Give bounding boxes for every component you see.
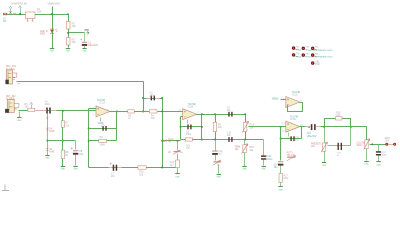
junction 162.2,140.8: [161, 140, 163, 142]
junction 116.9,111.4: [116, 110, 118, 112]
wire buffer in stub: [281, 99, 286, 101]
wire trim stem x177.5: [177, 141, 179, 151]
wire C12 to gnd: [263, 160, 265, 166]
pad TP4: [292, 53, 295, 56]
svg-text:GND: GND: [66, 51, 71, 53]
wire fb stub x280.6: [280, 127, 282, 139]
switch S1 body: [26, 12, 36, 19]
resistor R7: [61, 121, 64, 127]
wire fb rail y138.7: [281, 138, 302, 140]
svg-text:GND: GND: [175, 176, 180, 178]
wire trimmer4 stem: [324, 127, 326, 143]
op-amp IC1A: [96, 106, 110, 117]
svg-text:PAD: PAD: [315, 63, 320, 66]
wire VIN rail y14: [4, 14, 69, 16]
svg-text:100p: 100p: [186, 134, 192, 136]
wire buffer feedback loop: [288, 103, 303, 112]
junction 201.9,126.9: [201, 126, 203, 128]
junction 245.2,139.5: [244, 139, 246, 141]
ground GND8: [175, 173, 179, 175]
diode mark top x47: [46, 117, 48, 119]
resistor R3: [128, 110, 134, 113]
junction 180.5,126.9: [180, 126, 182, 128]
wire 47-63 y140.6: [48, 140, 76, 142]
svg-text:GND: GND: [217, 177, 222, 179]
jack J2 sleeve: [5, 109, 9, 113]
pad TP5: [302, 53, 305, 56]
resistor R2: [66, 37, 70, 45]
jack J2 switch box: [14, 104, 19, 108]
trimmer R14: [244, 122, 247, 131]
junction mic2/x62.9: [62, 110, 64, 112]
svg-text:GND: GND: [376, 164, 381, 166]
pad TP2: [302, 47, 305, 50]
resistor R8: [61, 150, 64, 159]
wire coupling y98: [144, 98, 163, 100]
wire R16 to gnd: [218, 165, 220, 174]
diode D4: [46, 148, 48, 150]
resistor R18: [336, 117, 343, 120]
junction 88.7,128.3: [88, 127, 90, 129]
wire R3-R4: [135, 111, 150, 113]
supply arrow VBB: [86, 31, 89, 34]
wire VBB cap stem: [84, 33, 86, 42]
svg-text:1%: 1%: [186, 148, 189, 150]
wire mic1 signal: [17, 81, 144, 83]
svg-text:RED: RED: [40, 33, 45, 36]
capacitor C11 polarized: [212, 151, 218, 152]
svg-text:GND: GND: [50, 51, 55, 53]
ground GND14: [364, 161, 368, 163]
ground GND2: [66, 48, 70, 50]
wire noninv stub op2: [181, 116, 183, 118]
capacitor C10 in lower rail: [228, 137, 229, 142]
capacitor C6: [102, 126, 103, 131]
wire feedback res branch y140.8: [89, 140, 117, 142]
svg-text:TL072D: TL072D: [188, 104, 197, 106]
wire x263.7 stem: [263, 140, 265, 156]
wire R18 bypass loop: [325, 119, 351, 127]
wire output IC1B: [197, 114, 246, 116]
wire mic1 drop x143: [143, 82, 145, 112]
diode D2: [13, 13, 16, 15]
svg-text:DC: DC: [3, 20, 7, 23]
wire C14 to R17: [280, 166, 282, 174]
ground GND13: [322, 162, 326, 164]
wire fb cap branch y126.9: [181, 126, 202, 128]
svg-text:4k7: 4k7: [170, 164, 175, 167]
capacitor C17: [376, 151, 381, 153]
svg-text:TL074D: TL074D: [290, 116, 299, 118]
wire R12 to gnd: [177, 168, 179, 174]
junction 62.9,140.6: [62, 140, 64, 142]
ground GND4: [17, 117, 21, 119]
svg-text:8ohm: 8ohm: [357, 145, 363, 147]
op-amp IC1A power stub: [100, 118, 102, 122]
svg-text:10u: 10u: [79, 153, 84, 156]
pad TP7: [311, 61, 314, 64]
resistor R5: [213, 122, 216, 131]
svg-text:GND: GND: [278, 189, 283, 191]
wire output IC1D: [300, 126, 310, 128]
wire stage bus y112 segment: [117, 111, 128, 113]
wire trimmer2 stem below rail: [244, 140, 246, 145]
svg-text:GND: GND: [261, 169, 266, 171]
svg-text:IC1C: IC1C: [292, 94, 298, 97]
wire trimmer5 to gnd: [366, 149, 368, 161]
supply arrow VBB mic bias: [30, 102, 33, 104]
svg-text:100u/16V: 100u/16V: [307, 136, 317, 138]
wire x215 between rails: [215, 115, 217, 140]
svg-text:GND: GND: [322, 165, 327, 167]
svg-text:100k: 100k: [100, 144, 106, 147]
svg-text:100n: 100n: [150, 94, 156, 97]
pad TP3: [311, 47, 314, 50]
svg-text:100n: 100n: [267, 159, 273, 161]
ground GND10: [217, 174, 221, 176]
svg-text:IC1A: IC1A: [100, 101, 106, 104]
capacitor C13: [290, 136, 291, 141]
LED LED1: [50, 30, 54, 34]
resistor R17: [279, 173, 282, 182]
wire lower rail y139.5: [202, 139, 264, 141]
wire feedback rail x88.7: [88, 109, 90, 168]
svg-text:TL074D: TL074D: [292, 92, 301, 94]
junction 177.5,140.8: [177, 140, 179, 142]
jack J1 sleeve: [5, 80, 8, 84]
pad TP6: [311, 53, 314, 56]
ground GND12: [278, 186, 282, 188]
wire trimmer4 to gnd: [324, 152, 326, 163]
frame origin cross: [2, 185, 9, 191]
wire trimmer2 to gnd: [244, 153, 246, 167]
svg-text:GND: GND: [45, 158, 50, 160]
capacitor C15 polarized series: [311, 124, 313, 130]
svg-text:GND: GND: [364, 164, 369, 166]
diode D1: [9, 11, 12, 13]
junction 143,111.5: [142, 111, 144, 113]
svg-text:100k: 100k: [283, 178, 289, 180]
supply symbol +V left: [10, 9, 12, 15]
svg-text:100n: 100n: [382, 155, 388, 157]
wire wiper5 out: [370, 144, 386, 146]
trimmer R16 marks: [213, 161, 219, 162]
wire fb up leg: [301, 127, 303, 139]
junction 201.9,114.2: [201, 113, 203, 115]
pad TP1: [292, 46, 295, 49]
diode D3: [46, 128, 48, 130]
ground GND7: [73, 166, 77, 168]
resistor R10: [138, 166, 146, 169]
jack J1 body: [6, 70, 12, 84]
wire out y126.9 main: [316, 126, 367, 128]
junction 280.6,126.9: [280, 126, 282, 128]
wire VAA vertical rail x52: [52, 7, 54, 49]
wire bus x162 vertical: [162, 99, 164, 168]
capacitor C5 polarized: [73, 150, 78, 151]
wire feedback rail x180.5: [180, 117, 182, 140]
ground GND1: [50, 48, 54, 50]
svg-text:ACT: ACT: [217, 161, 222, 164]
wire mic2 signal: [19, 110, 97, 112]
svg-text:JUMPER2.KK: JUMPER2.KK: [11, 2, 28, 6]
svg-text:4148: 4148: [49, 131, 55, 133]
wire C11 down: [215, 155, 217, 161]
svg-text:IC1D: IC1D: [290, 118, 296, 121]
wire trimmer3 vertical: [245, 115, 247, 140]
wire output IC1A: [110, 111, 117, 113]
junction 245.2,114.2: [244, 113, 246, 115]
resistor R13: [185, 138, 192, 141]
switch S1 legs: [27, 19, 29, 22]
junction 309,126.9: [308, 126, 310, 128]
ground GND15: [376, 161, 380, 163]
svg-text:GND: GND: [17, 120, 22, 122]
ground GND3: [82, 48, 86, 50]
wire x62.9 vertical: [62, 111, 64, 167]
junction 201.9,139.5: [201, 139, 203, 141]
svg-text:VBB/VAA: VBB/VAA: [48, 2, 61, 6]
trimmer R19: [322, 143, 325, 151]
wire branch x68: [68, 15, 70, 48]
junction 88.7,140.8: [88, 140, 90, 142]
svg-text:GND: GND: [61, 169, 66, 171]
capacitor C9 in upper rail: [228, 112, 229, 117]
svg-text:GND: GND: [73, 168, 78, 170]
wire bottom chain y167.5: [89, 167, 176, 169]
junction 350.9,126.9: [350, 126, 352, 128]
wire feedback cap branch y128.3: [89, 128, 117, 130]
resistor R12: [176, 160, 180, 168]
resistor R6: [28, 108, 35, 111]
wire C17 stem: [378, 145, 380, 152]
op-amp IC1D power stub: [288, 133, 290, 137]
ground GND9: [242, 166, 246, 168]
resistor R4: [149, 110, 157, 113]
diode D5: [163, 140, 166, 143]
svg-text:VAA: VAA: [297, 49, 302, 52]
wire wiper4 y145.3: [328, 127, 351, 146]
wire x215 lower stem: [215, 140, 217, 151]
junction bus x162 cross: [161, 110, 163, 112]
wire R17 to gnd: [280, 183, 282, 187]
capacitor C1 polarized: [82, 42, 87, 43]
wire x201.9 vertical: [201, 115, 203, 140]
svg-text:OUT: OUT: [385, 141, 390, 143]
wire diode branch y140.8: [163, 140, 181, 142]
connector SPK1 pin 2: [393, 143, 396, 146]
wire C17 to gnd: [378, 156, 380, 162]
junction 68,32.8: [67, 32, 69, 34]
wire R4 to op2: [158, 111, 183, 113]
wire C1 to gnd: [84, 46, 86, 49]
wire inverting stub: [89, 108, 97, 110]
svg-text:AC: AC: [168, 151, 172, 154]
wire to trimmer5: [351, 126, 367, 128]
svg-text:IC1B: IC1B: [188, 106, 194, 109]
junction 324.1,126.9: [323, 126, 325, 128]
ground GND6: [45, 155, 49, 157]
capacitor C12: [261, 155, 266, 157]
wire divider mid to VBB cap: [69, 32, 85, 34]
op-amp IC1B power stub: [187, 120, 189, 124]
capacitor C4: [46, 108, 48, 114]
connector SPK1 pin 1: [385, 143, 388, 146]
svg-text:4148: 4148: [49, 151, 55, 153]
wire filter out to op4: [249, 126, 286, 128]
wire trim to R12: [177, 154, 179, 161]
svg-text:GND: GND: [82, 51, 87, 53]
ground GND11: [262, 166, 266, 168]
jack J1 switch box: [13, 73, 17, 77]
wire x75.6 cap branch: [75, 141, 77, 150]
capacitor C16: [338, 143, 339, 150]
capacitor C2: [151, 96, 152, 101]
junction 47.4,140.6: [46, 140, 48, 142]
potentiometer P1 marks: [287, 157, 295, 158]
wire C5 to gnd: [75, 155, 77, 166]
junction 143,98: [142, 97, 144, 99]
svg-text:SIG IN: SIG IN: [306, 57, 313, 59]
capacitor C7 polarized: [113, 165, 115, 171]
svg-text:SPEAKER GND1: SPEAKER GND1: [316, 49, 334, 52]
capacitor C8: [187, 125, 188, 130]
trimmer R15: [243, 145, 246, 153]
op-amp IC1D: [286, 121, 300, 132]
svg-text:100u/16V: 100u/16V: [88, 44, 99, 47]
junction 162.2,167.5: [161, 167, 163, 169]
svg-text:10u: 10u: [111, 175, 116, 178]
wire jack2 gnd stub: [19, 112, 21, 118]
wire SPK1 link: [389, 144, 394, 146]
junction 280.6,138.7: [280, 138, 282, 140]
supply symbol VAA stub: [20, 8, 22, 15]
connector X1 pins: [3, 13, 5, 15]
svg-text:VBB/2: VBB/2: [272, 98, 279, 101]
resistor R1: [66, 21, 70, 29]
svg-text:1N4: 1N4: [37, 11, 42, 14]
svg-text:TL072D: TL072D: [97, 100, 106, 102]
wire fb res branch y139.5 left: [181, 139, 202, 141]
capacitor C14: [278, 161, 283, 162]
wire x116.9 vertical: [116, 112, 118, 141]
svg-text:GND: GND: [297, 57, 302, 59]
svg-text:SPEAKER GND2: SPEAKER GND2: [316, 56, 334, 59]
jack J2 body: [7, 99, 14, 112]
junction 52,14: [51, 13, 53, 15]
junction 215,139.5: [214, 139, 216, 141]
wire x47.4 branch: [47, 114, 49, 156]
junction 372.3,144.3: [371, 143, 373, 145]
junction at 20,14: [19, 13, 21, 15]
resistor R9: [99, 139, 107, 142]
svg-text:GND: GND: [242, 169, 247, 171]
svg-text:100n: 100n: [45, 103, 51, 106]
op-amp IC1C: [286, 97, 300, 108]
trimmer R20: [365, 140, 368, 149]
junction 215,114.2: [214, 113, 216, 115]
pin wires pink overlays: [35, 110, 47, 112]
junction 162.2,98: [161, 97, 163, 99]
trimmer R11 horizontal: [174, 151, 180, 152]
op-amp IC1B: [183, 109, 197, 120]
ground GND5: [61, 166, 65, 168]
svg-text:VBB: VBB: [84, 29, 89, 32]
wire x280.6 down to out cap: [280, 139, 282, 161]
